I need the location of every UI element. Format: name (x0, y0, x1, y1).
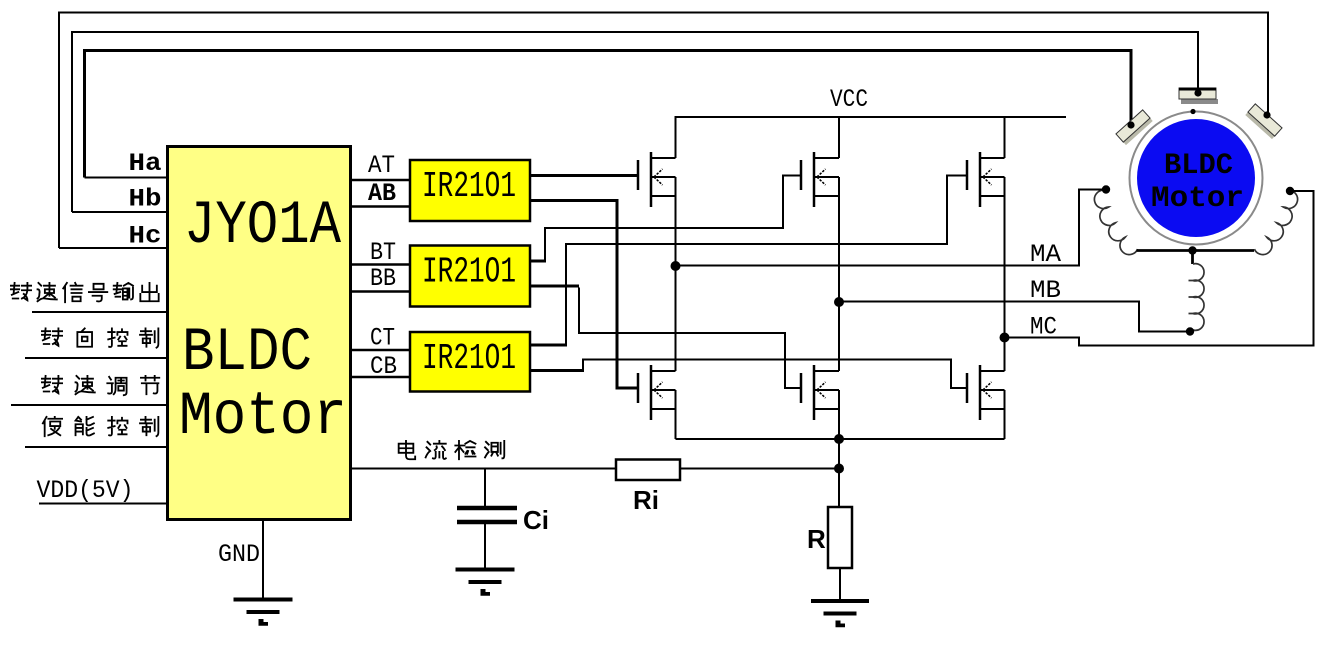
svg-text:IR21O1: IR21O1 (422, 166, 516, 207)
svg-text:Hb: Hb (129, 185, 162, 214)
transistor Q3 (high side) (967, 152, 1005, 207)
wire VDD pin (39, 503, 166, 505)
wire AB gate drive to Q4 (530, 201, 637, 389)
capacitor Ci plates (457, 506, 517, 511)
wire Ci to ground (484, 524, 486, 568)
wire Q4 source to bottom rail (675, 390, 677, 439)
node A phase junction (671, 261, 681, 271)
node motor top mark (1190, 109, 1195, 114)
wire BB net (352, 290, 410, 293)
svg-text:BLDC: BLDC (1164, 149, 1233, 183)
wire Hb input (72, 211, 166, 213)
svg-text:IR21O1: IR21O1 (422, 252, 516, 293)
wire Ha hall feedback (inner top rail, thick) (85, 51, 1132, 178)
svg-text:AT: AT (368, 151, 395, 180)
wire enable-control pin (25, 446, 166, 448)
wire bottom source rail (676, 438, 1005, 440)
wire Hc input (59, 247, 166, 249)
transistor Q2 (high side) (801, 152, 839, 207)
svg-text:Hc: Hc (129, 222, 162, 251)
svg-text:Motor: Motor (1151, 182, 1244, 216)
transistor Q4 (low side) (638, 365, 676, 420)
wire current-sense line 电流检测 (352, 468, 616, 470)
label 电流检测 (399, 441, 416, 459)
wire BT gate drive to Q2 (530, 260, 545, 263)
transistor Q5 (low side) (801, 365, 839, 420)
svg-text:BB: BB (370, 264, 396, 293)
svg-text:BT: BT (370, 238, 396, 267)
wire Ri to sense node (680, 468, 839, 470)
node C phase junction (1000, 333, 1010, 343)
wire VCC drop to Q3 drain (1004, 117, 1006, 158)
wire node MA to Q4 drain (675, 266, 677, 371)
node hall left terminal (1127, 121, 1134, 128)
gate driver U2 IR2101 body (410, 160, 530, 221)
wire AT net (352, 179, 410, 182)
transistor Q1 (high side) (638, 152, 676, 207)
wire sense node to R (838, 469, 840, 508)
node hall right terminal (1263, 111, 1270, 118)
wire Hc hall feedback (outer top rail) (59, 13, 1268, 249)
wire rail to sense node (838, 439, 840, 469)
node B phase junction (834, 297, 844, 307)
node sense junction (834, 464, 844, 474)
wire star center stub (1191, 251, 1194, 265)
svg-text:Motor: Motor (179, 383, 347, 452)
wire MA to coil A (1079, 189, 1104, 191)
wire node MB to Q5 drain (838, 302, 840, 371)
wire Q5 source to bottom rail (838, 390, 840, 439)
svg-text:VCC: VCC (830, 85, 868, 114)
svg-text:JYO1A: JYO1A (184, 192, 341, 261)
svg-text:Ci: Ci (523, 505, 549, 535)
hall sensor right (1245, 104, 1282, 139)
svg-text:CB: CB (370, 352, 397, 381)
svg-text:AB: AB (368, 179, 396, 208)
svg-text:MA: MA (1030, 240, 1061, 269)
svg-text:Ri: Ri (633, 485, 659, 515)
ground symbol under Ci (456, 568, 515, 572)
resistor R body (828, 507, 852, 568)
IC U1 JY01A controller body (168, 147, 351, 520)
wire CT gate drive to Q3 (530, 344, 566, 347)
wire R to ground (839, 568, 841, 600)
label 使能控制 (43, 417, 62, 436)
coil winding B (center vertical) (1189, 264, 1205, 331)
hall sensor top (1179, 88, 1218, 104)
wire MC phase line (1005, 191, 1314, 346)
wire BB gate drive to Q5 (530, 285, 579, 288)
wire MA phase line (676, 190, 1105, 266)
label 转速调节 (42, 376, 62, 393)
wire AT gate drive to Q1 (530, 174, 637, 177)
label 转速信号输出 (11, 283, 31, 300)
node hall top terminal (1194, 89, 1201, 96)
svg-text:R: R (807, 524, 826, 554)
gate driver U3 IR2101 body (410, 246, 530, 307)
resistor Ri body (616, 460, 680, 481)
wire sense line to Ci (484, 469, 486, 507)
hall sensor left (1116, 110, 1153, 145)
wire speed-signal-output pin (32, 311, 166, 313)
ground symbol under JY01A (234, 598, 293, 602)
coil winding C (right) (1254, 190, 1297, 254)
wire VCC drop to Q2 drain (838, 117, 840, 158)
wire MB phase line (839, 302, 1188, 332)
wire speed-adjust pin (11, 404, 166, 406)
label 转向控制 (42, 328, 62, 345)
wire motor star bottom bar (1137, 249, 1255, 252)
svg-text:BLDC: BLDC (182, 319, 312, 388)
wire node MC to Q6 drain (1004, 338, 1006, 372)
transistor Q6 (low side) (967, 365, 1005, 420)
svg-text:GND: GND (218, 540, 260, 569)
wire direction-control pin (25, 357, 166, 359)
wire CB net (352, 376, 410, 379)
wire Q2 source to node MB (838, 177, 840, 302)
wire BT net (352, 263, 410, 266)
svg-text:VDD(5V): VDD(5V) (37, 476, 134, 505)
svg-text:Ha: Ha (129, 149, 162, 178)
wire VCC rail (676, 117, 1067, 158)
motor outer ring (1130, 112, 1263, 245)
wire coil C to MC riser (1290, 190, 1314, 192)
svg-text:CT: CT (370, 324, 395, 353)
wire CB gate drive to Q6 (530, 369, 583, 372)
wire Q3 source to node MC (1004, 177, 1006, 338)
wire CT net (352, 349, 410, 352)
node coil C terminal (1286, 187, 1294, 195)
svg-text:MC: MC (1030, 313, 1057, 342)
wire Ha input (85, 177, 167, 179)
wire GND pin stem (262, 521, 264, 598)
motor rotor (blue) (1137, 119, 1255, 237)
wire AB net (352, 205, 410, 208)
coil winding A (left) (1094, 190, 1137, 254)
ground symbol under R (811, 599, 869, 603)
gate driver U4 IR2101 body (410, 332, 530, 392)
wire Q1 source to node MA (675, 177, 677, 266)
node coil B end (1186, 327, 1194, 335)
svg-text:IR21O1: IR21O1 (422, 338, 516, 379)
node bottom rail junction (834, 434, 844, 444)
wire Q6 source to bottom rail (1004, 390, 1006, 439)
node coil A terminal (1102, 185, 1110, 193)
node motor star center (1188, 246, 1196, 254)
wire Hb hall feedback (middle top rail) (72, 32, 1198, 212)
svg-text:MB: MB (1030, 276, 1061, 305)
